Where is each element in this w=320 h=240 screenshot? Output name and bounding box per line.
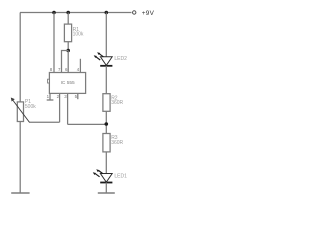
node dot rail R1 (66, 11, 70, 15)
resistor R2 (103, 94, 110, 112)
wire left rail upper (19, 13, 21, 103)
LED1 diode (100, 174, 112, 183)
IC left tab (48, 79, 50, 83)
svg-text:500k: 500k (25, 104, 36, 110)
wire top supply rail (20, 12, 132, 14)
ground bar left (11, 192, 29, 194)
potentiometer P1 body (17, 102, 23, 122)
LED1 emission arrows (95, 174, 99, 177)
svg-text:IC 555: IC 555 (61, 80, 75, 86)
+9V terminal circle (133, 11, 136, 14)
wire pin2 to pot (29, 121, 59, 123)
resistor R1 (64, 24, 71, 42)
wire pin3 to LED chain (68, 123, 107, 125)
svg-text:LED1: LED1 (114, 174, 127, 180)
wire LED2 to R2 (105, 66, 107, 94)
node dot rail pin8 (52, 11, 56, 15)
ground bar right (98, 192, 115, 194)
wire R2 to node (105, 111, 107, 133)
svg-text:LED2: LED2 (114, 56, 127, 62)
LED2 emission arrows (96, 57, 100, 60)
svg-text:360R: 360R (111, 140, 123, 146)
wire pin5 stub (77, 93, 79, 99)
node dot R1 bottom (66, 49, 70, 53)
wire R3 to LED1 (105, 152, 107, 174)
node dot rail LED2 (105, 11, 109, 15)
svg-text:+9V: +9V (142, 10, 155, 17)
ground bar pin1 (47, 99, 54, 101)
wire R1 bottom (67, 42, 69, 51)
svg-text:100k: 100k (73, 32, 84, 38)
resistor R3 (103, 134, 110, 152)
wire LED2 top (105, 13, 107, 57)
wire pin3 down (67, 93, 69, 124)
svg-text:360R: 360R (111, 100, 123, 106)
potentiometer P1 wiper arrow (13, 100, 30, 123)
wire LED1 to ground (105, 183, 107, 194)
wire left rail lower (19, 122, 21, 193)
wire pin1 stub (49, 93, 51, 100)
op-amp U1 IC 555 body (49, 73, 85, 94)
wire pin8 to rail (53, 13, 55, 73)
wire R1 junction to pin7 (62, 51, 69, 73)
wire R1 junction to pin6 (67, 51, 69, 73)
LED2 diode (100, 57, 112, 66)
wire R1 top (67, 13, 69, 25)
wire pin2 down (59, 93, 61, 122)
node dot output (105, 122, 109, 126)
wire pin4 stub (79, 59, 81, 73)
